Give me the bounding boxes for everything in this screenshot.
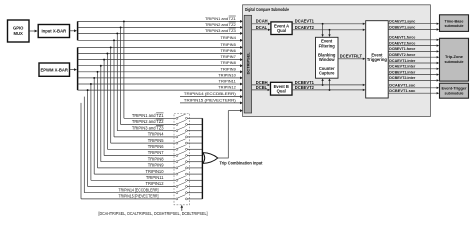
block Trip-Zone submodule bbox=[440, 38, 469, 81]
svg-text:Triggering: Triggering bbox=[367, 57, 388, 62]
label TRIPIN4 (trip combination row) bbox=[148, 132, 164, 137]
block Time-Base submodule bbox=[440, 15, 469, 32]
svg-text:TRIPIN1 and: TRIPIN1 and bbox=[132, 113, 156, 118]
svg-text:DCBEVT1.sync: DCBEVT1.sync bbox=[389, 24, 416, 29]
Digital Compare Submodule container bbox=[243, 5, 431, 117]
wire DCBEVT1 bbox=[292, 78, 365, 86]
label TRIPIN3 and TZ3 (trip combination row) bbox=[132, 125, 164, 130]
svg-text:TRIPIN10: TRIPIN10 bbox=[146, 169, 165, 174]
svg-text:TRIPIN5: TRIPIN5 bbox=[148, 138, 164, 143]
wire DCBEVT2.force bbox=[388, 52, 439, 58]
svg-text:DCBL: DCBL bbox=[256, 85, 268, 90]
wire TRIPIN3 and TZ3 (top) bbox=[78, 28, 244, 35]
svg-text:TZ1: TZ1 bbox=[156, 113, 164, 118]
wire Input X-BAR to trip bus A bbox=[70, 29, 78, 32]
block Event A Qual bbox=[271, 22, 292, 35]
wire vertical drop TRIPIN1 and TZ1 to trip-combination row bbox=[123, 20, 176, 118]
svg-text:DCTRIPSEL: DCTRIPSEL bbox=[245, 52, 250, 75]
wire DCBEVT1.sync bbox=[388, 24, 439, 30]
wire DCAEVT2.force bbox=[388, 40, 439, 46]
svg-text:EPWM X-BAR: EPWM X-BAR bbox=[40, 68, 67, 73]
wire TRIPIN2 and TZ2 (top) bbox=[78, 22, 244, 29]
svg-text:TZ3: TZ3 bbox=[229, 28, 237, 33]
svg-text:TRIPIN9: TRIPIN9 bbox=[148, 163, 164, 168]
wire DCBH bbox=[252, 80, 271, 86]
svg-text:DCBEVT1.force: DCBEVT1.force bbox=[389, 46, 416, 51]
wire TRIPIN8 (top) bbox=[78, 60, 244, 67]
svg-text:TZ2: TZ2 bbox=[156, 119, 164, 124]
wire vertical drop TRIPIN3 and TZ3 to trip-combination row bbox=[116, 32, 175, 130]
wire DCAEVT1.soc bbox=[388, 83, 439, 89]
svg-text:[DCAHTRIPSEL, DCALTRIPSEL, DCB: [DCAHTRIPSEL, DCALTRIPSEL, DCBHTRIPSEL, … bbox=[99, 211, 208, 216]
svg-text:DCAEVT2.inter: DCAEVT2.inter bbox=[389, 64, 415, 69]
wire DCBL bbox=[252, 85, 271, 91]
switch row 9 (TRIPIN9) bbox=[176, 164, 203, 169]
switch row 8 (TRIPIN8) bbox=[176, 157, 203, 162]
svg-text:Trip Combination Input: Trip Combination Input bbox=[220, 160, 264, 165]
svg-text:TRIPIN9: TRIPIN9 bbox=[220, 66, 236, 71]
svg-text:DCAEVT2.force: DCAEVT2.force bbox=[389, 40, 416, 45]
svg-text:TRIPIN3 and: TRIPIN3 and bbox=[205, 28, 228, 33]
svg-text:TRIPIN11: TRIPIN11 bbox=[219, 79, 237, 84]
label TRIPIN1 and TZ1 (trip combination row) bbox=[132, 113, 164, 118]
wire vertical drop TRIPIN11 to trip-combination row bbox=[90, 83, 176, 180]
svg-text:submodule: submodule bbox=[445, 59, 465, 64]
wire TRIPIN1 and TZ1 (top) bbox=[78, 16, 244, 23]
svg-text:DCAEVT1.sync: DCAEVT1.sync bbox=[389, 19, 416, 24]
wire DCAH bbox=[252, 19, 271, 25]
svg-text:TRIPIN6: TRIPIN6 bbox=[220, 48, 236, 53]
svg-text:TRIPIN14 (ECCDBLERR): TRIPIN14 (ECCDBLERR) bbox=[184, 91, 237, 96]
svg-text:MUX: MUX bbox=[14, 31, 24, 36]
label TRIPIN5 (trip combination row) bbox=[148, 138, 164, 143]
switch row 10 (TRIPIN10) bbox=[176, 170, 203, 175]
svg-text:DCEVTFILT: DCEVTFILT bbox=[340, 53, 363, 58]
block Event B Qual bbox=[271, 82, 293, 95]
svg-text:TRIPIN3 and: TRIPIN3 and bbox=[132, 125, 156, 130]
label TRIPIN7 (trip combination row) bbox=[148, 150, 164, 155]
svg-text:DCAEVT1: DCAEVT1 bbox=[295, 19, 315, 24]
block GPIO MUX bbox=[8, 20, 30, 42]
label TRIPIN9 (trip combination row) bbox=[148, 163, 164, 168]
TRIPSEL control arrow into switch bank bbox=[181, 205, 184, 211]
block Event Filtering / Blanking Window / Counter Capture bbox=[316, 37, 339, 78]
svg-text:DCBEVT1.inter: DCBEVT1.inter bbox=[389, 69, 415, 74]
wire DCBEVT2.inter bbox=[388, 75, 439, 81]
wire vertical drop TRIPIN12 to trip-combination row bbox=[87, 89, 176, 186]
svg-text:TRIPIN4: TRIPIN4 bbox=[148, 132, 164, 137]
label TRIPIN15 (PIEVECTERR) (trip combination row) bbox=[119, 194, 159, 199]
svg-text:DCAH: DCAH bbox=[256, 19, 268, 24]
svg-text:DCAEVT1.force: DCAEVT1.force bbox=[389, 35, 416, 40]
switch row 14 (TRIPIN15 (PIEVECTERR)) bbox=[176, 195, 203, 200]
label TRIPIN2 and TZ2 (trip combination row) bbox=[132, 119, 164, 124]
DCTRIPSEL mux bar bbox=[244, 15, 251, 113]
svg-text:submodule: submodule bbox=[445, 90, 465, 95]
wire vertical drop TRIPIN7 to trip-combination row bbox=[103, 59, 175, 156]
svg-text:DCBEVT2.inter: DCBEVT2.inter bbox=[389, 75, 415, 80]
svg-text:TRIPIN1 and: TRIPIN1 and bbox=[205, 16, 228, 21]
label TRIPIN14 (ECCDBLERR) (trip combination row) bbox=[119, 187, 159, 192]
wire GPIO MUX to Input X-BAR bbox=[29, 30, 38, 33]
label TRIPIN12 (trip combination row) bbox=[146, 181, 165, 186]
svg-text:Window: Window bbox=[319, 57, 335, 62]
svg-text:DCBEVT2.force: DCBEVT2.force bbox=[389, 52, 416, 57]
wire vertical drop TRIPIN6 to trip-combination row bbox=[106, 53, 175, 150]
label TRIPIN10 (trip combination row) bbox=[146, 169, 165, 174]
svg-text:TRIPIN6: TRIPIN6 bbox=[148, 144, 164, 149]
wire TRIPIN14 (ECCDBLERR) (top) bbox=[180, 91, 243, 98]
svg-text:TRIPIN10: TRIPIN10 bbox=[218, 72, 236, 77]
wire vertical drop TRIPIN14 (ECCDBLERR) to trip-combination row bbox=[84, 97, 175, 193]
svg-text:TRIPIN7: TRIPIN7 bbox=[220, 54, 236, 59]
svg-text:TZ1: TZ1 bbox=[229, 16, 237, 21]
switch row 11 (TRIPIN11) bbox=[176, 176, 203, 181]
svg-text:DCAL: DCAL bbox=[256, 25, 268, 30]
bus A vertical (Input X-BAR to TRIPIN1-4) bbox=[77, 21, 79, 40]
wire TRIPIN12 (top) bbox=[78, 85, 244, 92]
svg-text:TRIPIN5: TRIPIN5 bbox=[220, 42, 236, 47]
wire DCAEVT1 bbox=[292, 19, 365, 37]
switch row 6 (TRIPIN6) bbox=[176, 145, 203, 150]
svg-text:TZ3: TZ3 bbox=[156, 125, 164, 130]
switch row 2 (TRIPIN2 and TZ2) bbox=[176, 120, 203, 125]
label TRIPIN8 (trip combination row) bbox=[148, 156, 164, 161]
wire DCEVTFILT bbox=[338, 53, 365, 60]
wire DCAEVT1.force bbox=[388, 35, 439, 41]
wire EPWM X-BAR to trip bus B bbox=[70, 68, 78, 71]
wire DCAEVT2 bbox=[292, 25, 365, 37]
wire vertical drop TRIPIN4 to trip-combination row bbox=[113, 39, 176, 137]
block Event-Trigger submodule bbox=[440, 83, 469, 98]
wire TRIPIN9 (top) bbox=[78, 66, 244, 73]
wire vertical drop TRIPIN10 to trip-combination row bbox=[93, 77, 175, 174]
wire DCBEVT1.soc bbox=[388, 88, 439, 94]
wire DCBEVT2 bbox=[292, 78, 365, 91]
wire DCAL bbox=[252, 25, 271, 31]
wire vertical drop TRIPIN5 to trip-combination row bbox=[110, 46, 176, 143]
wire TRIPIN11 (top) bbox=[78, 79, 244, 86]
svg-text:submodule: submodule bbox=[445, 23, 465, 28]
switch row 4 (TRIPIN4) bbox=[176, 133, 203, 138]
svg-text:TRIPIN4: TRIPIN4 bbox=[220, 35, 236, 40]
wire vertical drop TRIPIN15 (PIEVECTERR) to trip-combination row bbox=[81, 103, 176, 199]
svg-text:Input X-BAR: Input X-BAR bbox=[41, 29, 66, 34]
OR gate trip combination bbox=[203, 153, 218, 164]
wire TRIPIN6 (top) bbox=[78, 48, 244, 55]
svg-text:DCBEVT2: DCBEVT2 bbox=[295, 85, 315, 90]
switch output bus vertical bbox=[201, 118, 203, 199]
block Input X-BAR bbox=[38, 25, 69, 38]
svg-text:TRIPIN15 (PIEVECTERR): TRIPIN15 (PIEVECTERR) bbox=[184, 97, 237, 102]
svg-text:TRIPIN2 and: TRIPIN2 and bbox=[205, 22, 228, 27]
svg-text:TRIPIN8: TRIPIN8 bbox=[148, 156, 164, 161]
svg-text:DCAEVT1.soc: DCAEVT1.soc bbox=[389, 83, 416, 88]
wire vertical drop TRIPIN8 to trip-combination row bbox=[100, 65, 176, 162]
label TRIPIN11 (trip combination row) bbox=[146, 175, 164, 180]
svg-text:TRIPIN12: TRIPIN12 bbox=[146, 181, 165, 186]
switch row 12 (TRIPIN12) bbox=[176, 182, 203, 187]
svg-text:DCBEVT1.soc: DCBEVT1.soc bbox=[389, 88, 416, 93]
block EPWM X-BAR bbox=[39, 63, 70, 76]
svg-text:TRIPIN8: TRIPIN8 bbox=[220, 60, 236, 65]
svg-text:Filtering: Filtering bbox=[319, 43, 336, 48]
svg-text:DCAEVT2: DCAEVT2 bbox=[295, 25, 315, 30]
svg-text:TRIPIN12: TRIPIN12 bbox=[218, 85, 236, 90]
wire DCBEVT1.force bbox=[388, 46, 439, 52]
wire TRIPIN10 (top) bbox=[78, 72, 244, 79]
switch row 3 (TRIPIN3 and TZ3) bbox=[176, 126, 203, 131]
svg-text:TRIPIN2 and: TRIPIN2 and bbox=[132, 119, 156, 124]
switch row 7 (TRIPIN7) bbox=[176, 151, 203, 156]
wire TRIPIN5 (top) bbox=[78, 42, 244, 49]
switch row 1 (TRIPIN1 and TZ1) bbox=[176, 114, 203, 119]
svg-text:Qual: Qual bbox=[277, 28, 286, 33]
wire TRIPIN4 (top) bbox=[78, 35, 244, 42]
wire DCAEVT1.sync bbox=[388, 19, 439, 25]
wire DCAEVT1.inter bbox=[388, 58, 439, 64]
svg-text:TZ2: TZ2 bbox=[229, 22, 237, 27]
svg-text:TRIPIN15 [PIEVECTERR]: TRIPIN15 [PIEVECTERR] bbox=[119, 194, 159, 199]
wire DCAEVT2.inter bbox=[388, 64, 439, 70]
svg-text:TRIPIN11: TRIPIN11 bbox=[146, 175, 164, 180]
wire TRIPIN15 (PIEVECTERR) (top) bbox=[180, 97, 243, 104]
wire vertical drop TRIPIN2 and TZ2 to trip-combination row bbox=[120, 26, 176, 124]
svg-text:TRIPIN14 [ECCDBLERR]: TRIPIN14 [ECCDBLERR] bbox=[119, 187, 159, 192]
bus B vertical (EPWM X-BAR to TRIPIN5-12) bbox=[77, 47, 79, 90]
svg-text:TRIPIN7: TRIPIN7 bbox=[148, 150, 164, 155]
svg-text:Digital Compare Submodule: Digital Compare Submodule bbox=[245, 7, 289, 12]
label TRIPIN6 (trip combination row) bbox=[148, 144, 164, 149]
wire OR gate output / trip combination feedback bbox=[217, 109, 243, 158]
svg-text:Qual: Qual bbox=[277, 89, 286, 94]
switch row 5 (TRIPIN5) bbox=[176, 139, 203, 144]
wire DCBEVT1.inter bbox=[388, 69, 439, 75]
block Event Triggering bbox=[366, 21, 389, 98]
svg-text:Capture: Capture bbox=[319, 71, 335, 76]
wire vertical drop TRIPIN9 to trip-combination row bbox=[97, 71, 176, 168]
switch row 13 (TRIPIN14 (ECCDBLERR)) bbox=[176, 188, 203, 193]
svg-text:DCAEVT1.inter: DCAEVT1.inter bbox=[389, 58, 415, 63]
wire TRIPIN7 (top) bbox=[78, 54, 244, 61]
trip select switch bank (dashed box) bbox=[174, 114, 190, 205]
